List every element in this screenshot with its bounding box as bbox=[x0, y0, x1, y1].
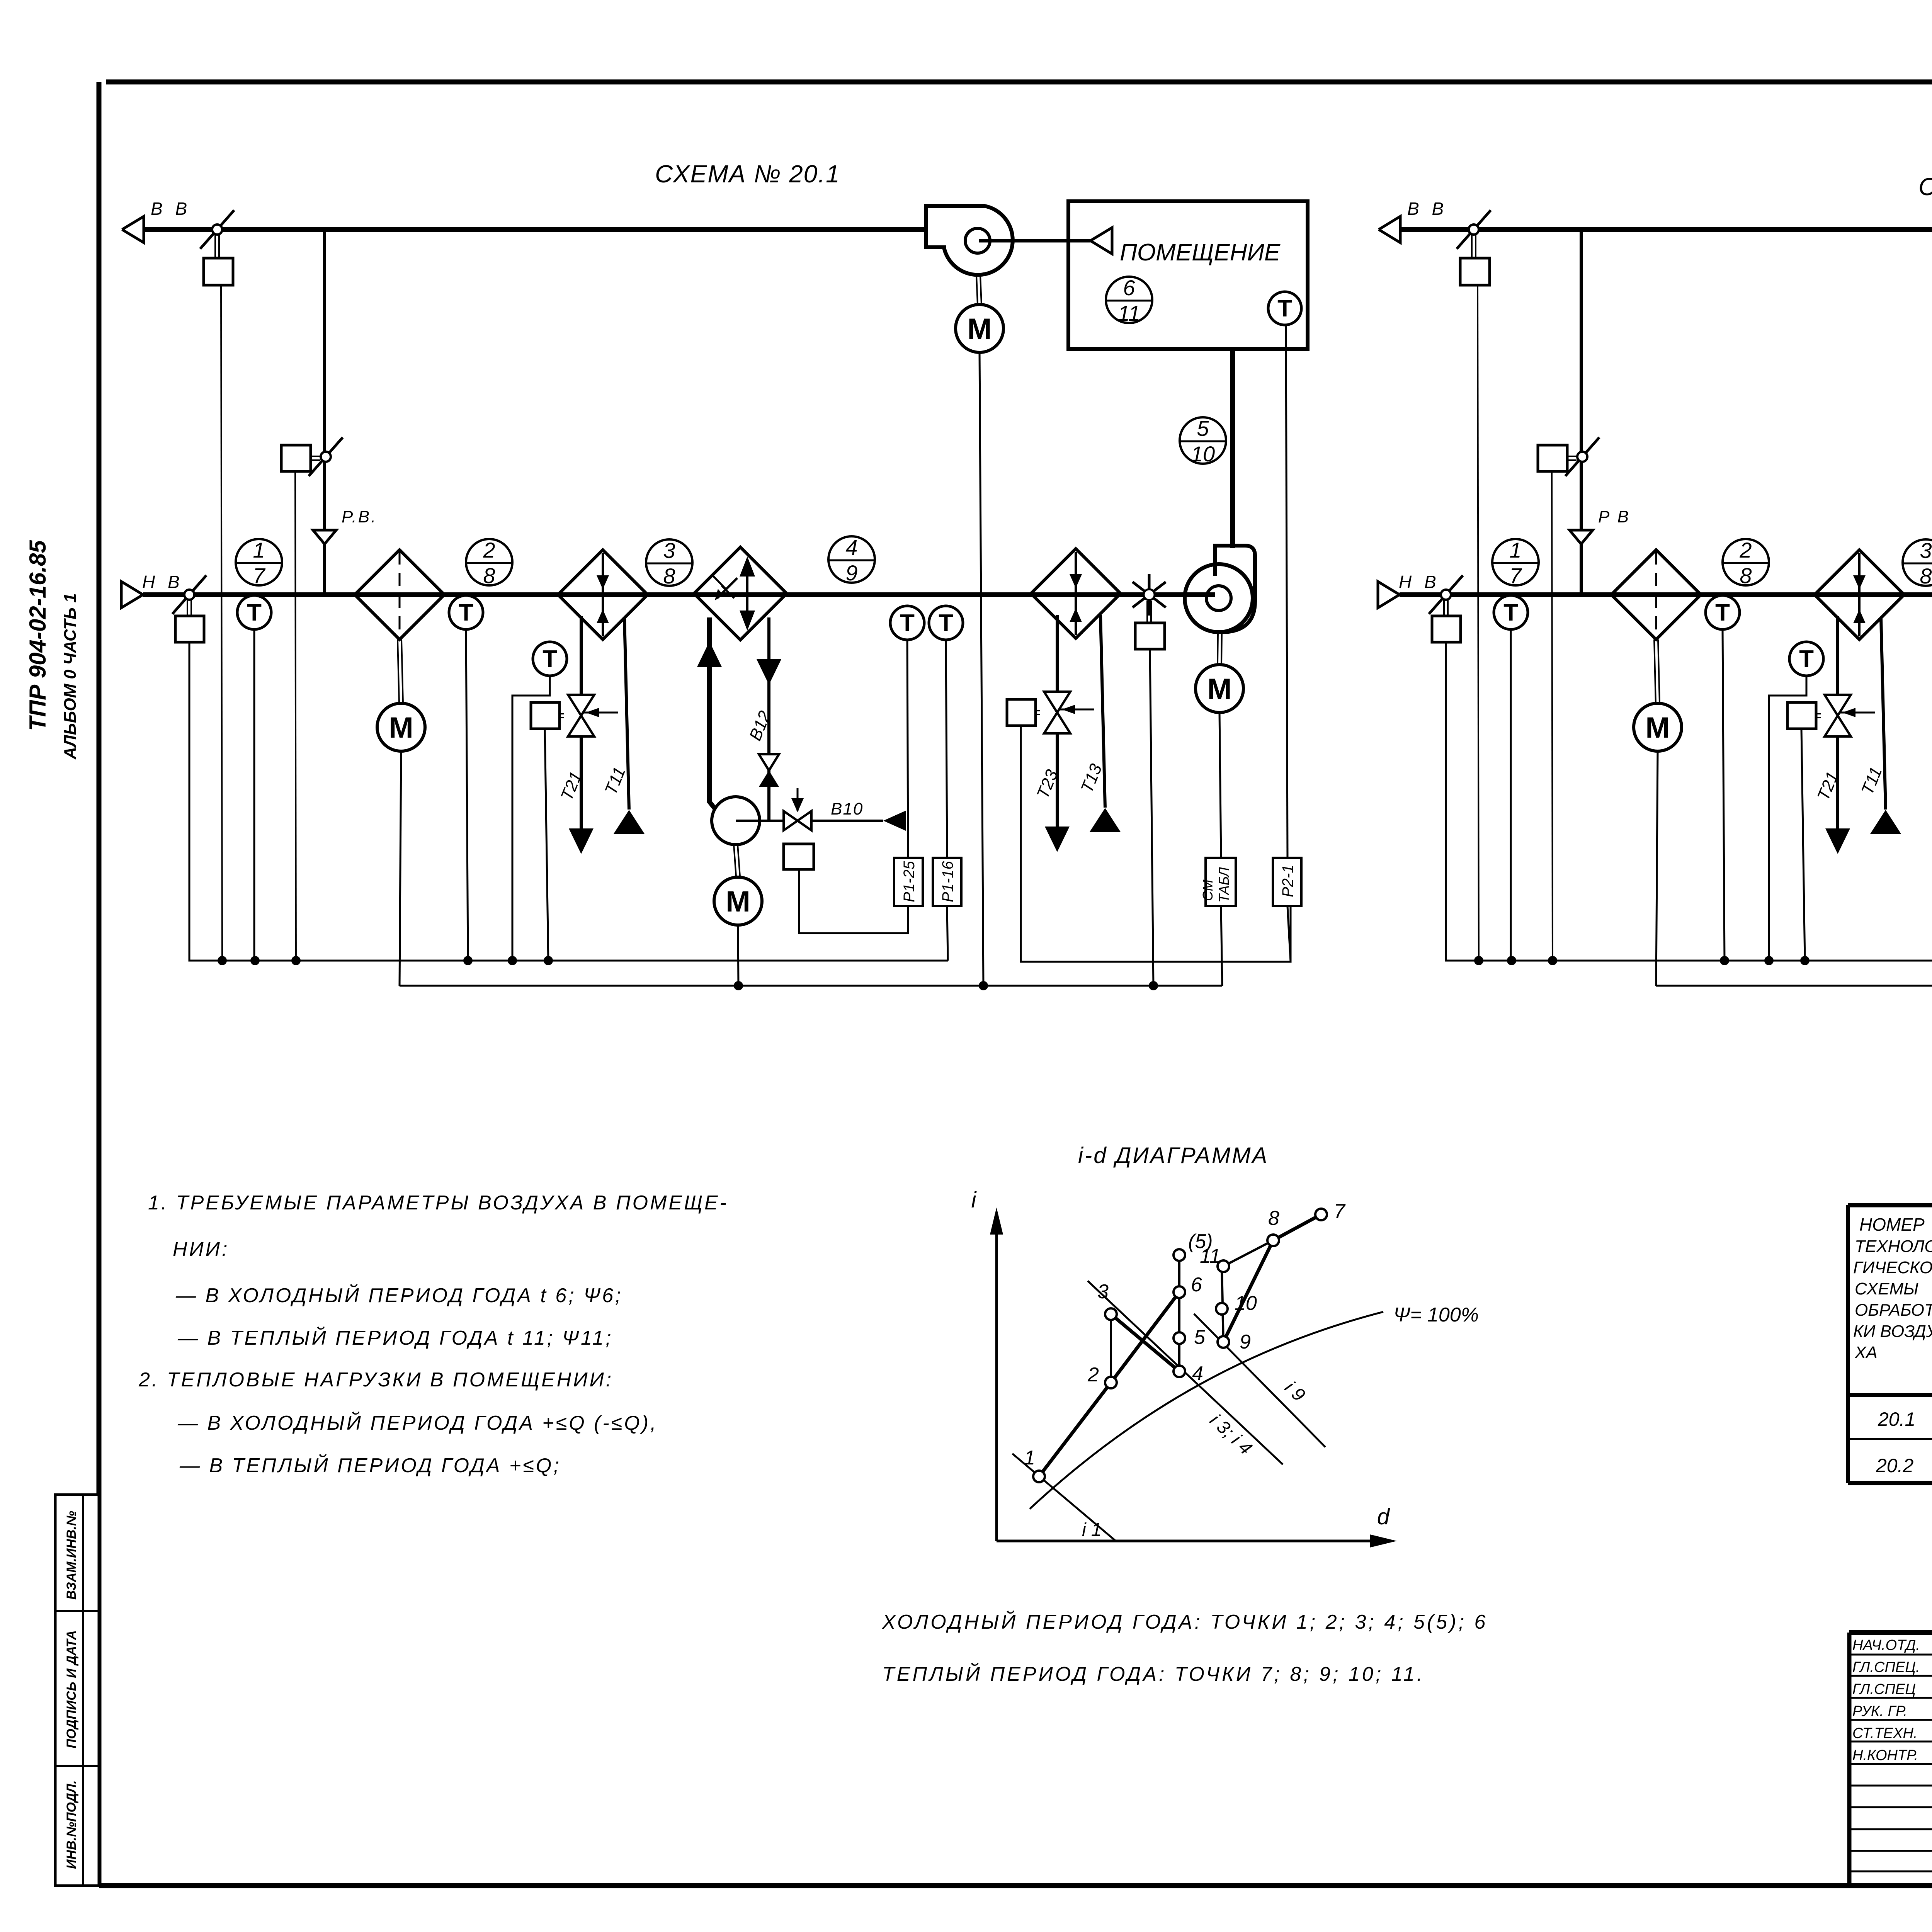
title block signatures column bbox=[1852, 1635, 1932, 1772]
svg-text:ТЕПЛЫЙ ПЕРИОД ГОДА: ТОЧКИ: ТЕПЛЫЙ ПЕРИОД ГОДА: ТОЧКИ 7; 8; 9; 10; 1… bbox=[882, 1663, 1425, 1685]
sensor T after intake bbox=[1494, 595, 1528, 629]
svg-text:Н В: Н В bbox=[1399, 572, 1440, 592]
svg-text:НАЧ.ОТД.: НАЧ.ОТД. bbox=[1852, 1637, 1920, 1653]
svg-text:— В ТЕПЛЫЙ ПЕРИОД ГОДА +: — В ТЕПЛЫЙ ПЕРИОД ГОДА +≤Q; bbox=[179, 1454, 561, 1477]
supply air duct to room bbox=[1230, 335, 1235, 548]
stage circle 1/7 bbox=[236, 538, 282, 588]
svg-text:ИНВ.№ПОДЛ.: ИНВ.№ПОДЛ. bbox=[64, 1780, 79, 1869]
svg-text:СТ.ТЕХН.: СТ.ТЕХН. bbox=[1852, 1725, 1917, 1742]
svg-text:11: 11 bbox=[1200, 1245, 1221, 1267]
pipe T21 return bbox=[557, 736, 594, 854]
sensor T supply 1 bbox=[890, 606, 924, 640]
svg-text:i-d ДИАГРАММА: i-d ДИАГРАММА bbox=[1078, 1143, 1269, 1168]
device CM TABL bbox=[1200, 858, 1236, 906]
pipe heater to valve T21 bbox=[1836, 616, 1839, 696]
svg-text:Р2-1: Р2-1 bbox=[1279, 865, 1296, 898]
svg-text:В В: В В bbox=[1407, 199, 1447, 219]
label vzam inv bbox=[64, 1511, 79, 1600]
bus 1 junctions bbox=[1474, 956, 1810, 965]
svg-text:Н В: Н В bbox=[142, 572, 184, 592]
node NV intake bbox=[121, 572, 184, 608]
svg-text:3: 3 bbox=[1097, 1281, 1109, 1303]
pipe T11 supply bbox=[601, 618, 645, 834]
signal bus 1 bbox=[1446, 960, 1932, 962]
label room bbox=[1120, 239, 1281, 266]
actuator of shutoff valve bbox=[1135, 601, 1165, 649]
pipe B12 bbox=[746, 617, 781, 821]
wire sensor T to bus bbox=[1510, 629, 1512, 961]
signal bus 1 bbox=[189, 960, 948, 962]
label podpis bbox=[64, 1630, 79, 1748]
wire supply duct NV bbox=[143, 592, 1215, 597]
pipe riser to chamber bbox=[697, 617, 722, 811]
wire fan motor to CM TABL bbox=[1219, 713, 1221, 858]
actuator of NV damper bbox=[1432, 616, 1461, 642]
isoline i9 bbox=[1194, 1314, 1325, 1447]
frame left border bbox=[97, 82, 102, 1886]
svg-text:11: 11 bbox=[1118, 301, 1140, 325]
actuator of BB damper bbox=[1460, 258, 1490, 285]
exhaust fan bbox=[926, 206, 1013, 275]
title block grid bbox=[1849, 1633, 1932, 1886]
node supply air inlet bbox=[1219, 315, 1245, 337]
svg-text:8: 8 bbox=[1740, 563, 1752, 588]
isoline i3 i4 bbox=[1088, 1281, 1283, 1464]
stage circle 6/11 bbox=[1106, 276, 1152, 325]
svg-text:2. ТЕПЛОВЫЕ НАГРУЗКИ В: 2. ТЕПЛОВЫЕ НАГРУЗКИ В ПОМЕЩЕНИИ: bbox=[138, 1369, 613, 1391]
svg-text:— В ХОЛОДНЫЙ ПЕРИОД ГОДА: — В ХОЛОДНЫЙ ПЕРИОД ГОДА t 6; Ψ6; bbox=[175, 1284, 623, 1307]
process lines cold period bbox=[1039, 1255, 1179, 1476]
svg-text:i 1: i 1 bbox=[1082, 1520, 1102, 1540]
node BB exhaust outlet bbox=[122, 199, 191, 243]
stage circle 4/9 bbox=[828, 535, 875, 585]
i-d diagram title bbox=[1078, 1143, 1269, 1168]
curve phi 100 bbox=[1030, 1304, 1479, 1509]
pipe heater2 to valve bbox=[1056, 615, 1059, 692]
svg-text:СХЕМЫ: СХЕМЫ bbox=[1855, 1279, 1918, 1298]
svg-text:ХА: ХА bbox=[1854, 1343, 1878, 1362]
svg-text:3: 3 bbox=[663, 538, 675, 563]
state points bbox=[1024, 1200, 1346, 1482]
svg-text:ПОМЕЩЕНИЕ: ПОМЕЩЕНИЕ bbox=[1120, 239, 1281, 266]
wire NV actuator to bus bbox=[1446, 642, 1479, 961]
wire NV actuator to bus bbox=[189, 642, 222, 961]
damper on BB duct bbox=[1457, 210, 1491, 249]
albums table header texts bbox=[1853, 1214, 1932, 1380]
svg-text:Т: Т bbox=[247, 599, 262, 626]
svg-text:Р В: Р В bbox=[1598, 507, 1630, 526]
wire actuator to bus bbox=[1478, 285, 1479, 961]
damper stem bbox=[1472, 235, 1476, 258]
wire RV actuator to bus bbox=[295, 471, 296, 961]
svg-text:8: 8 bbox=[663, 564, 675, 588]
svg-text:8: 8 bbox=[483, 563, 495, 588]
sensor T after intake bbox=[237, 595, 271, 629]
wire sensor to P1-25 bbox=[907, 640, 908, 858]
wire supply duct NV bbox=[1400, 592, 1932, 597]
svg-text:2: 2 bbox=[1739, 538, 1752, 562]
pump of irrigation chamber bbox=[712, 797, 784, 845]
wire CM TABL to bus2 bbox=[1221, 906, 1222, 986]
svg-text:5: 5 bbox=[1194, 1326, 1206, 1349]
schema 20.2 title bbox=[1918, 173, 1932, 201]
stage circle 2/8 bbox=[466, 538, 512, 588]
wire exhaust motor to bus2 bbox=[980, 352, 983, 986]
svg-text:— В ХОЛОДНЫЙ ПЕРИОД ГОДА: — В ХОЛОДНЫЙ ПЕРИОД ГОДА +≤Q (-≤Q), bbox=[177, 1412, 658, 1434]
margin stamp table bbox=[55, 1495, 99, 1886]
svg-text:М: М bbox=[1645, 711, 1670, 744]
svg-text:ВЗАМ.ИНВ.№: ВЗАМ.ИНВ.№ bbox=[64, 1511, 79, 1600]
wire sensor to bus bbox=[1723, 629, 1725, 961]
stage circle 3/8 bbox=[1903, 538, 1932, 588]
svg-text:В10: В10 bbox=[831, 799, 863, 818]
actuator of heater valve bbox=[531, 702, 564, 729]
air heater 1 bbox=[1815, 550, 1904, 639]
svg-text:ПОДПИСЬ И ДАТА: ПОДПИСЬ И ДАТА bbox=[64, 1630, 79, 1748]
damper RV bbox=[309, 437, 343, 476]
wire shutoff actuator to bus2 bbox=[1150, 649, 1153, 986]
notes text bbox=[138, 1192, 728, 1477]
svg-text:i: i bbox=[971, 1187, 977, 1213]
stage circle 5/10 bbox=[1180, 416, 1226, 466]
svg-text:20.1: 20.1 bbox=[1878, 1408, 1915, 1430]
control valve heater 1 bbox=[568, 695, 618, 736]
actuator of NV damper bbox=[175, 616, 204, 642]
label TPR doc bbox=[25, 540, 51, 731]
svg-text:— В ТЕПЛЫЙ ПЕРИОД ГОДА t 1: — В ТЕПЛЫЙ ПЕРИОД ГОДА t 11; Ψ11; bbox=[177, 1327, 613, 1349]
NV damper stem bbox=[1444, 600, 1448, 616]
svg-text:СХЕМА № 20.2: СХЕМА № 20.2 bbox=[1918, 173, 1932, 201]
svg-text:9: 9 bbox=[1240, 1331, 1251, 1353]
wire P1-16 to bus bbox=[947, 906, 948, 961]
actuator of heater2 valve bbox=[1007, 699, 1040, 726]
supply fan bbox=[1185, 546, 1255, 632]
node NV intake bbox=[1378, 572, 1440, 608]
node RV outlet bbox=[1570, 530, 1593, 544]
damper RV bbox=[1565, 437, 1599, 476]
svg-text:ХОЛОДНЫЙ ПЕРИОД ГОДА: ТО: ХОЛОДНЫЙ ПЕРИОД ГОДА: ТОЧКИ 1; 2; 3; 4; … bbox=[882, 1611, 1488, 1633]
label album bbox=[61, 593, 80, 760]
stage circle 1/7 bbox=[1492, 538, 1539, 588]
svg-text:2: 2 bbox=[1087, 1364, 1099, 1386]
control valve heater 1 bbox=[1825, 695, 1875, 736]
NV damper stem bbox=[187, 600, 191, 616]
svg-text:1: 1 bbox=[1509, 538, 1521, 562]
svg-text:20.2: 20.2 bbox=[1876, 1455, 1914, 1476]
axis d bbox=[997, 1504, 1397, 1548]
sensor T after filter bbox=[1706, 595, 1740, 629]
device P2-1 bbox=[1273, 858, 1301, 906]
albums table row 20.1 bbox=[1878, 1407, 1932, 1435]
damper on BB duct bbox=[200, 210, 234, 249]
shutoff valve before fan bbox=[1133, 574, 1166, 616]
irrigation chamber bbox=[694, 547, 787, 640]
sensor T heater 1 bbox=[533, 642, 567, 676]
wire sensor T to bus bbox=[1769, 676, 1806, 961]
bus 2 junctions bbox=[734, 981, 1158, 990]
wire filter motor to bus2 bbox=[1656, 751, 1658, 986]
stage circle 3/8 bbox=[646, 538, 692, 588]
pipe T23 return bbox=[1033, 733, 1070, 852]
svg-text:М: М bbox=[967, 313, 992, 345]
svg-text:НОМЕР: НОМЕР bbox=[1859, 1214, 1925, 1235]
svg-text:10: 10 bbox=[1235, 1292, 1257, 1315]
svg-text:РУК. ГР.: РУК. ГР. bbox=[1852, 1703, 1907, 1719]
axis i bbox=[971, 1187, 1003, 1541]
sensor T heater 1 bbox=[1789, 642, 1823, 676]
svg-text:Т: Т bbox=[939, 610, 953, 636]
pump shaft bbox=[734, 845, 740, 876]
svg-text:7: 7 bbox=[1509, 563, 1522, 588]
wire actuator to bus bbox=[221, 285, 222, 961]
svg-text:Н.КОНТР.: Н.КОНТР. bbox=[1852, 1747, 1918, 1764]
filter with motor bbox=[355, 550, 444, 639]
svg-text:1: 1 bbox=[1024, 1447, 1035, 1469]
pipe B10 supply bbox=[811, 799, 906, 831]
exhaust fan shaft bbox=[976, 276, 981, 304]
wire valve actuator to bus bbox=[1801, 729, 1805, 961]
svg-text:ОБРАБОТ-: ОБРАБОТ- bbox=[1855, 1301, 1932, 1320]
svg-text:Т: Т bbox=[543, 646, 557, 672]
diagram caption bbox=[882, 1611, 1488, 1685]
isoline i1 bbox=[1012, 1454, 1117, 1542]
wire valve actuator to bus bbox=[545, 729, 548, 961]
signal bus 2 bbox=[1656, 985, 1932, 987]
svg-text:Ψ= 100%: Ψ= 100% bbox=[1393, 1304, 1479, 1326]
air heater 2 bbox=[1031, 549, 1121, 638]
damper stem bbox=[215, 235, 219, 258]
svg-text:Т: Т bbox=[1715, 599, 1730, 626]
svg-text:4: 4 bbox=[845, 535, 857, 560]
svg-text:2: 2 bbox=[483, 538, 495, 562]
svg-text:10: 10 bbox=[1191, 442, 1215, 466]
wire pump motor to bus2 bbox=[738, 925, 738, 986]
svg-text:1: 1 bbox=[253, 538, 265, 562]
albums table grid bbox=[1848, 1205, 1932, 1483]
svg-text:НИИ:: НИИ: bbox=[173, 1238, 229, 1260]
wire fan to room bbox=[979, 228, 1112, 254]
signal bus 2 bbox=[400, 985, 1222, 987]
damper on NV duct bbox=[172, 575, 206, 614]
frame top border bbox=[106, 80, 1932, 85]
wire sensor T to bus bbox=[512, 676, 550, 961]
pipe T21 return bbox=[1814, 736, 1850, 854]
wire RV actuator to bus bbox=[1552, 471, 1553, 961]
svg-text:ТАБЛ: ТАБЛ bbox=[1216, 867, 1232, 903]
svg-text:АЛЬБОМ 0 ЧАСТЬ 1: АЛЬБОМ 0 ЧАСТЬ 1 bbox=[61, 593, 80, 760]
svg-text:М: М bbox=[1207, 673, 1231, 706]
node BB exhaust outlet bbox=[1379, 199, 1447, 243]
svg-text:d: d bbox=[1377, 1504, 1390, 1529]
actuator of RV damper bbox=[1538, 445, 1577, 471]
wire sensor to bus bbox=[466, 629, 468, 961]
actuator of valve B10 bbox=[784, 844, 814, 869]
wire B10 actuator loop bbox=[799, 869, 908, 933]
svg-text:Т: Т bbox=[1277, 295, 1292, 322]
svg-text:Т: Т bbox=[900, 610, 915, 636]
svg-text:Р1-25: Р1-25 bbox=[901, 861, 918, 902]
svg-text:СМ: СМ bbox=[1200, 879, 1216, 901]
control valve heater 2 bbox=[1044, 692, 1094, 733]
bus 1 junctions bbox=[218, 956, 553, 965]
supply fan shaft bbox=[1218, 633, 1222, 665]
svg-text:СХЕМА № 20.1: СХЕМА № 20.1 bbox=[655, 160, 840, 188]
svg-text:ГЛ.СПЕЦ: ГЛ.СПЕЦ bbox=[1852, 1681, 1916, 1697]
wire sensor T to bus bbox=[253, 629, 255, 961]
wire exhaust duct BB bbox=[145, 227, 926, 232]
svg-text:3: 3 bbox=[1920, 538, 1932, 563]
svg-text:ТЕХНОЛО-: ТЕХНОЛО- bbox=[1855, 1237, 1932, 1256]
filter shaft bbox=[1654, 639, 1660, 703]
svg-text:8: 8 bbox=[1920, 564, 1932, 588]
wire exhaust duct BB bbox=[1401, 227, 1932, 232]
wire room sensor to P2-1 bbox=[1286, 325, 1287, 858]
pipe T13 supply bbox=[1077, 615, 1121, 832]
process lines warm period bbox=[1222, 1214, 1321, 1342]
svg-text:Р1-16: Р1-16 bbox=[939, 861, 956, 902]
pipe heater to valve T21 bbox=[580, 616, 583, 696]
filter with motor bbox=[1611, 550, 1701, 639]
room box bbox=[1068, 201, 1308, 349]
device P1-25 bbox=[894, 858, 923, 906]
filter shaft bbox=[398, 639, 403, 703]
svg-text:6: 6 bbox=[1123, 276, 1135, 300]
sensor T after filter bbox=[449, 595, 483, 629]
label inv podl bbox=[64, 1780, 79, 1869]
wire recirculation branch RV bbox=[323, 230, 326, 595]
svg-text:7: 7 bbox=[253, 563, 265, 588]
svg-text:8: 8 bbox=[1268, 1207, 1279, 1230]
svg-text:6: 6 bbox=[1191, 1274, 1202, 1296]
wire filter motor to bus2 bbox=[400, 751, 401, 986]
stage circle 2/8 bbox=[1723, 538, 1769, 588]
frame bottom border bbox=[99, 1883, 1932, 1888]
motor M of pump bbox=[714, 877, 762, 925]
svg-text:М: М bbox=[389, 711, 413, 744]
svg-text:ТПР 904-02-16.85: ТПР 904-02-16.85 bbox=[25, 540, 51, 731]
svg-text:М: М bbox=[726, 885, 750, 918]
node RV outlet bbox=[313, 530, 336, 544]
svg-text:Т: Т bbox=[1503, 599, 1518, 626]
motor M of filter bbox=[377, 703, 425, 751]
room sensor T bbox=[1268, 292, 1301, 325]
valve B10 bbox=[784, 788, 811, 830]
sensor T supply 2 bbox=[929, 606, 963, 640]
svg-text:Р.В.: Р.В. bbox=[342, 507, 377, 526]
wire recirculation branch RV bbox=[1580, 230, 1583, 595]
svg-text:Т: Т bbox=[1799, 646, 1814, 672]
wire sensor to P1-16 bbox=[946, 640, 947, 858]
svg-text:КИ ВОЗДУ-: КИ ВОЗДУ- bbox=[1853, 1322, 1932, 1341]
svg-text:5: 5 bbox=[1197, 416, 1209, 440]
motor M of filter bbox=[1634, 703, 1682, 751]
svg-text:ГИЧЕСКОЙ: ГИЧЕСКОЙ bbox=[1853, 1257, 1932, 1277]
albums table row 20.2 bbox=[1876, 1452, 1932, 1480]
actuator of BB damper bbox=[204, 258, 233, 285]
svg-text:ГЛ.СПЕЦ.: ГЛ.СПЕЦ. bbox=[1852, 1659, 1920, 1675]
motor M of supply fan bbox=[1196, 665, 1243, 713]
svg-text:1. ТРЕБУЕМЫЕ ПАРАМЕТРЫ В: 1. ТРЕБУЕМЫЕ ПАРАМЕТРЫ ВОЗДУХА В ПОМЕЩЕ- bbox=[148, 1192, 728, 1214]
schema 20.1 title bbox=[655, 160, 840, 188]
motor M of exhaust fan bbox=[956, 304, 1003, 352]
svg-text:Т: Т bbox=[459, 599, 473, 626]
device P1-16 bbox=[933, 858, 961, 906]
actuator of RV damper bbox=[281, 445, 320, 471]
svg-text:9: 9 bbox=[845, 561, 857, 585]
svg-text:4: 4 bbox=[1192, 1362, 1203, 1385]
label RV bbox=[342, 507, 377, 526]
svg-text:7: 7 bbox=[1334, 1200, 1346, 1223]
label RV bbox=[1598, 507, 1630, 526]
actuator of heater valve bbox=[1787, 702, 1821, 729]
air heater 1 bbox=[558, 550, 648, 639]
pipe T11 supply bbox=[1858, 618, 1901, 834]
svg-text:В В: В В bbox=[151, 199, 191, 219]
damper on NV duct bbox=[1429, 575, 1463, 614]
wire P2-1 down bbox=[1287, 906, 1291, 962]
wire heater2 actuator link bbox=[1021, 726, 1291, 962]
